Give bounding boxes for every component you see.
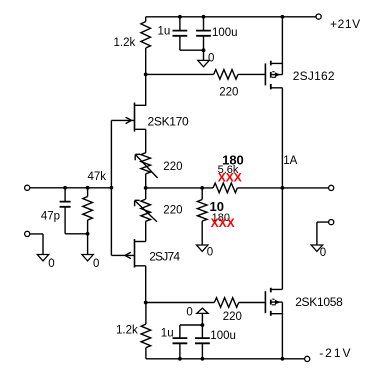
node 2SJ74 drain/1.2k (144, 301, 148, 305)
svg-text:-21V: -21V (319, 346, 352, 360)
ground right output (311, 245, 322, 251)
node 1u top rail (178, 15, 182, 19)
resistor 1.2k (bottom) (145, 303, 147, 325)
trimmer 220 (lower) (141, 199, 151, 221)
svg-text:220: 220 (163, 204, 182, 216)
svg-text:0: 0 (93, 258, 99, 270)
node 2SK1058 source rail (281, 357, 285, 361)
wire 47k to ground (87, 234, 89, 255)
svg-text:2SJ74: 2SJ74 (149, 250, 180, 264)
node bottom caps ground (201, 323, 205, 327)
wire 47p to 47k bottom (65, 233, 88, 235)
node feedback/10ohm (200, 186, 204, 190)
resistor 1.2k (top) (141, 22, 151, 49)
svg-text:1u: 1u (161, 328, 174, 340)
ground top caps (198, 60, 209, 66)
svg-text:1u: 1u (158, 25, 171, 37)
svg-text:1.2k: 1.2k (114, 37, 136, 49)
capacitor 1u (bottom) plates (173, 338, 188, 343)
terminal input (25, 185, 30, 190)
terminal output (329, 185, 334, 190)
wire 220 to 2SJ162 gate (238, 73, 265, 75)
svg-text:1.2k: 1.2k (116, 325, 138, 337)
wire 2SJ162 drain down / output rail (281, 88, 283, 290)
capacitor 47p leads (64, 188, 66, 234)
wire output node to terminal (282, 187, 328, 189)
ground wire bottom caps (201, 313, 203, 325)
transistor 2SJ74 (135, 241, 146, 243)
resistor 180 (was 5.6k) feedback (213, 183, 237, 193)
wire gate bus (110, 120, 112, 255)
svg-text:0: 0 (186, 307, 192, 319)
node input/47p (63, 186, 67, 190)
ground 47k (82, 255, 93, 261)
arrow 2SJ162 (275, 72, 281, 77)
node 100u bottom rail (201, 357, 205, 361)
resistor 220 (2SJ162 gate) (214, 70, 238, 80)
svg-text:100u: 100u (212, 27, 238, 39)
ground 10 ohm (197, 245, 208, 251)
svg-text:1A: 1A (283, 155, 297, 167)
node top caps ground (202, 48, 206, 52)
wire left ground hook (30, 234, 43, 255)
terminal -21V (305, 356, 310, 361)
svg-text:XXX: XXX (211, 216, 235, 230)
transistor 2SJ162 body (264, 63, 266, 85)
resistor 47k (87, 188, 89, 234)
wire 2SJ74 drain node to 220 (146, 302, 215, 304)
transistor 2SK170 (135, 74, 146, 105)
svg-text:0: 0 (207, 247, 213, 259)
capacitor 100u (top) plates (196, 31, 211, 36)
svg-text:220: 220 (163, 161, 182, 173)
svg-text:2SK170: 2SK170 (148, 114, 190, 128)
capacitor 100u (bottom) leads (201, 325, 203, 359)
ground left input (37, 255, 48, 261)
svg-text:47p: 47p (41, 210, 60, 222)
svg-text:0: 0 (48, 258, 54, 270)
wire cap bottoms link (180, 49, 204, 51)
arrow 2SK1058 (275, 300, 281, 305)
terminal output ground (329, 220, 334, 225)
wire trimmer to center node (145, 174, 147, 199)
wire +21V top rail (146, 16, 316, 18)
svg-text:100u: 100u (210, 330, 236, 342)
wire to top ground (203, 50, 205, 60)
capacitor 47p plates (60, 202, 71, 207)
node 2SJ162 source rail (281, 15, 285, 19)
svg-text:+21V: +21V (330, 17, 361, 31)
node 100u top rail (202, 15, 206, 19)
wire 1.2k top stub (145, 17, 147, 22)
svg-text:XXX: XXX (218, 170, 242, 184)
terminal input ground (25, 231, 30, 236)
node 1.2k/2SK170 drain (144, 73, 148, 77)
capacitor 1u (bottom) leads (179, 325, 181, 359)
resistor 220 (2SK1058 gate) (214, 298, 238, 308)
wire center node to feedback resistor (146, 187, 213, 189)
capacitor 100u (top) leads (203, 17, 205, 50)
wire -21V bottom rail (146, 358, 305, 360)
resistor 10 (was 180) to ground (201, 188, 203, 200)
svg-text:47k: 47k (88, 171, 107, 183)
wire node to 220 gate resistor (146, 73, 214, 75)
ground bottom caps (197, 308, 208, 313)
node input/47k (86, 186, 90, 190)
node output (281, 186, 285, 190)
svg-text:0: 0 (208, 53, 214, 65)
wire right ground hook (317, 222, 329, 245)
capacitor 1u (top) leads (179, 17, 181, 50)
node 47p/47k bottom (86, 232, 90, 236)
terminal +21V (316, 14, 321, 19)
wire 1.2k bottom to node (145, 48, 147, 74)
svg-text:0: 0 (320, 247, 326, 259)
capacitor 1u (top) plates (173, 31, 188, 36)
wire lower trimmer to 2SJ74 source (145, 221, 147, 241)
node input/gate bus (110, 186, 114, 190)
svg-text:220: 220 (219, 86, 238, 98)
svg-text:220: 220 (223, 311, 242, 323)
wire 2SK1058 source to -21V rail (281, 314, 283, 359)
trimmer 220 (upper) (141, 153, 151, 174)
svg-text:2SK1058: 2SK1058 (295, 295, 343, 309)
node 1u bottom rail (178, 357, 182, 361)
svg-text:2SJ162: 2SJ162 (293, 69, 335, 83)
transistor 2SK1058 body (264, 291, 266, 313)
capacitor 100u (bottom) plates (195, 338, 210, 343)
wire input (30, 187, 112, 189)
node center trimmers (144, 186, 148, 190)
